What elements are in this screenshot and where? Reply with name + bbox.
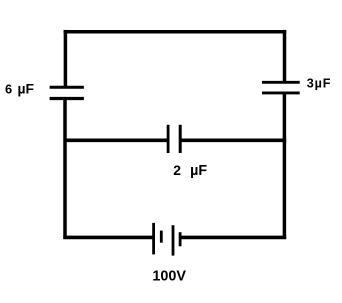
capacitor C1 6 µF top plate	[50, 86, 84, 89]
battery V1 long plate 2	[172, 225, 175, 255]
capacitor C3 2 µF left plate	[167, 125, 170, 153]
wire middle right segment	[180, 139, 286, 143]
wire bottom left segment	[63, 236, 153, 240]
svg-text:6: 6	[5, 82, 12, 97]
svg-text:µF: µF	[190, 163, 207, 179]
wire left upper	[64, 30, 68, 87]
svg-text:2: 2	[173, 162, 181, 178]
wire right upper	[283, 30, 287, 82]
wire middle left segment	[64, 139, 168, 143]
battery V1 short plate 2	[179, 232, 182, 246]
wire left lower	[63, 99, 67, 239]
svg-text:100V: 100V	[152, 269, 186, 285]
capacitor C3 2 µF right plate	[179, 125, 182, 153]
capacitor C2 3µF top plate	[262, 81, 300, 84]
wire top	[64, 30, 287, 34]
svg-text:3µF: 3µF	[307, 77, 332, 91]
wire bottom right segment	[180, 236, 286, 240]
wire right lower	[283, 93, 287, 239]
capacitor C1 6 µF bottom plate	[50, 97, 84, 100]
battery V1 short plate 1	[160, 231, 163, 243]
svg-text:µF: µF	[18, 81, 35, 97]
capacitor C2 3µF bottom plate	[262, 91, 300, 94]
battery V1 long plate 1	[152, 223, 155, 255]
